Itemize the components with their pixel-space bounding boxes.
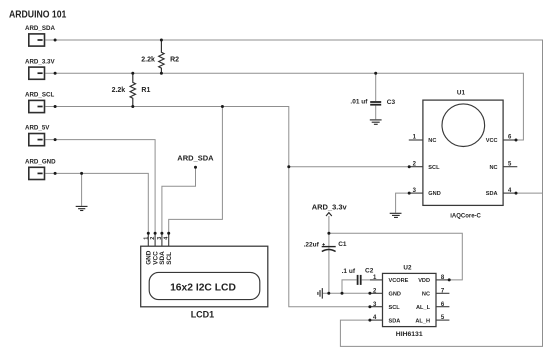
svg-text:iAQCore-C: iAQCore-C	[450, 213, 481, 219]
svg-text:16x2 I2C LCD: 16x2 I2C LCD	[170, 283, 236, 294]
svg-text:VDD: VDD	[418, 278, 430, 284]
svg-text:C2: C2	[365, 267, 374, 274]
svg-text:ARD_GND: ARD_GND	[25, 159, 56, 166]
svg-text:3: 3	[157, 237, 163, 240]
svg-text:HIH6131: HIH6131	[396, 331, 423, 338]
svg-text:R1: R1	[141, 87, 150, 94]
svg-text:SDA: SDA	[389, 318, 401, 324]
svg-text:AL_L: AL_L	[416, 305, 431, 311]
svg-text:ARD_3.3v: ARD_3.3v	[312, 202, 348, 211]
svg-text:.22uf: .22uf	[304, 241, 320, 248]
svg-text:ARD_SDA: ARD_SDA	[25, 25, 55, 32]
svg-text:.01 uf: .01 uf	[350, 98, 368, 105]
svg-text:ARD_SCL: ARD_SCL	[25, 92, 54, 99]
svg-text:U1: U1	[457, 89, 466, 96]
svg-text:1: 1	[143, 237, 149, 240]
svg-text:ARD_5V: ARD_5V	[25, 125, 50, 132]
svg-text:NC: NC	[490, 165, 498, 171]
svg-text:SCL: SCL	[166, 252, 173, 265]
svg-text:2: 2	[150, 237, 156, 240]
svg-text:AL_H: AL_H	[415, 318, 430, 324]
svg-text:R2: R2	[170, 56, 179, 63]
svg-text:VCORE: VCORE	[389, 278, 409, 284]
svg-text:2.2k: 2.2k	[112, 87, 126, 94]
svg-text:GND: GND	[428, 191, 440, 197]
svg-text:NC: NC	[428, 138, 436, 144]
svg-text:2.2k: 2.2k	[141, 56, 155, 63]
svg-text:C1: C1	[338, 241, 347, 248]
svg-text:ARD_3.3V: ARD_3.3V	[25, 58, 55, 65]
svg-text:NC: NC	[422, 292, 430, 298]
svg-text:VCC: VCC	[486, 138, 498, 144]
svg-text:ARD_SDA: ARD_SDA	[177, 153, 214, 162]
svg-text:SDA: SDA	[486, 191, 498, 197]
svg-text:U2: U2	[403, 265, 412, 272]
svg-text:C3: C3	[387, 99, 396, 106]
svg-text:LCD1: LCD1	[191, 310, 215, 320]
svg-text:SCL: SCL	[389, 305, 401, 311]
svg-text:.1 uf: .1 uf	[342, 268, 356, 275]
svg-text:GND: GND	[389, 292, 401, 298]
svg-text:ARDUINO 101: ARDUINO 101	[9, 10, 67, 21]
svg-text:SCL: SCL	[428, 165, 440, 171]
